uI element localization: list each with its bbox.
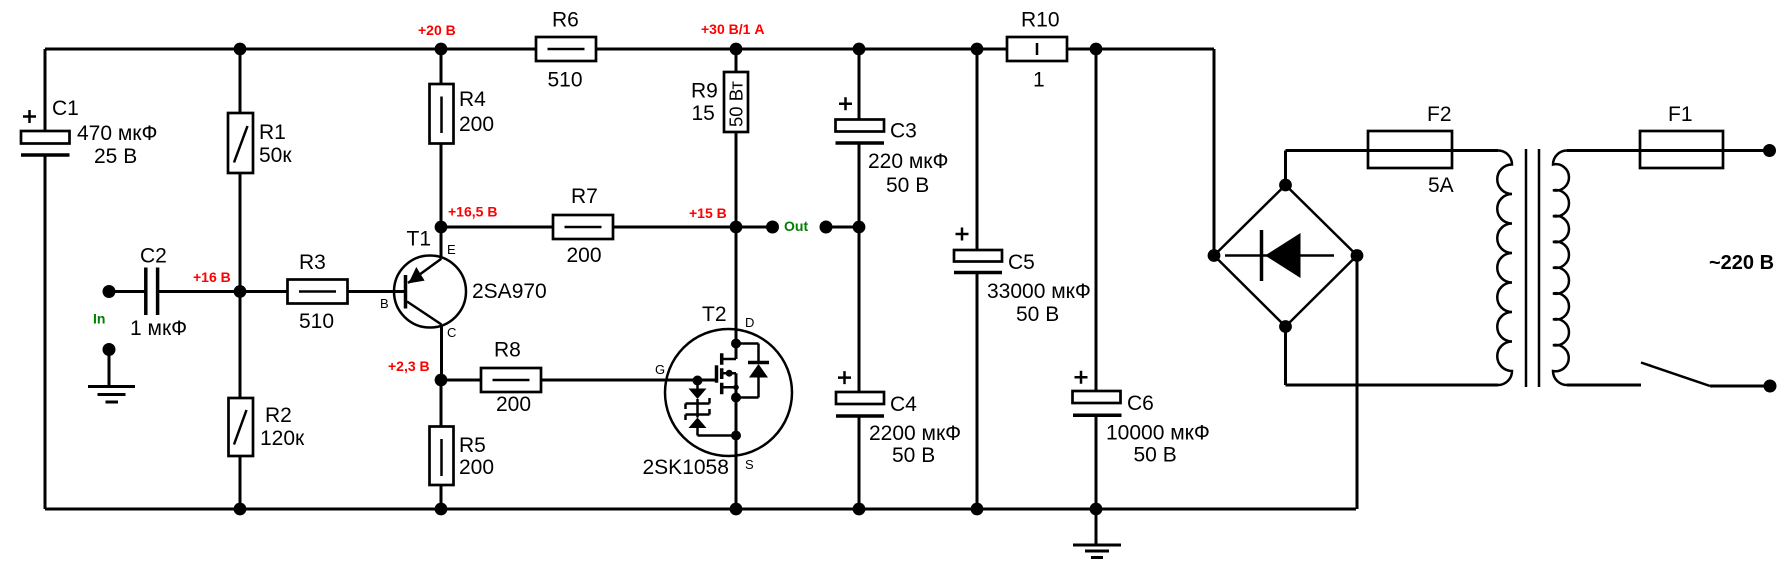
- svg-text:50к: 50к: [259, 144, 292, 167]
- svg-text:R5: R5: [459, 434, 486, 457]
- svg-text:T1: T1: [407, 228, 432, 251]
- svg-text:C1: C1: [52, 97, 79, 120]
- svg-text:F1: F1: [1668, 103, 1693, 126]
- svg-text:+30 В/1 А: +30 В/1 А: [701, 21, 764, 37]
- svg-text:200: 200: [459, 113, 494, 136]
- svg-text:C5: C5: [1008, 251, 1035, 274]
- svg-text:R7: R7: [571, 185, 598, 208]
- svg-text:~220 В: ~220 В: [1709, 252, 1774, 274]
- svg-text:50 В: 50 В: [1134, 444, 1177, 467]
- svg-text:R2: R2: [265, 404, 292, 427]
- svg-text:D: D: [745, 315, 754, 330]
- svg-text:220 мкФ: 220 мкФ: [868, 150, 948, 173]
- svg-text:+16,5 В: +16,5 В: [448, 204, 497, 220]
- svg-text:C2: C2: [140, 245, 167, 268]
- svg-text:2SA970: 2SA970: [472, 280, 547, 303]
- svg-text:S: S: [745, 457, 754, 472]
- svg-text:510: 510: [299, 310, 334, 333]
- svg-text:510: 510: [548, 69, 583, 92]
- svg-text:200: 200: [567, 244, 602, 267]
- svg-text:50 В: 50 В: [892, 444, 935, 467]
- svg-text:50 В: 50 В: [1016, 303, 1059, 326]
- svg-text:R3: R3: [299, 251, 326, 274]
- svg-text:10000 мкФ: 10000 мкФ: [1106, 422, 1210, 445]
- svg-text:R4: R4: [459, 88, 486, 111]
- svg-text:F2: F2: [1427, 103, 1452, 126]
- svg-text:R6: R6: [552, 9, 579, 32]
- svg-text:+20 В: +20 В: [418, 22, 456, 38]
- svg-text:C4: C4: [890, 393, 917, 416]
- svg-text:+16 В: +16 В: [193, 269, 231, 285]
- svg-text:E: E: [447, 242, 456, 257]
- svg-text:R10: R10: [1021, 9, 1060, 32]
- svg-text:470 мкФ: 470 мкФ: [77, 122, 157, 145]
- svg-text:50 Вт: 50 Вт: [726, 81, 747, 127]
- svg-text:In: In: [93, 311, 105, 327]
- svg-text:33000 мкФ: 33000 мкФ: [987, 280, 1091, 303]
- svg-text:25 В: 25 В: [94, 145, 137, 168]
- svg-text:T2: T2: [702, 303, 727, 326]
- svg-text:+2,3 В: +2,3 В: [388, 358, 430, 374]
- svg-text:5A: 5A: [1428, 174, 1454, 197]
- svg-text:R8: R8: [494, 339, 521, 362]
- svg-text:B: B: [380, 296, 389, 311]
- svg-text:Out: Out: [784, 218, 808, 234]
- svg-text:2SK1058: 2SK1058: [643, 456, 729, 479]
- svg-text:C6: C6: [1127, 392, 1154, 415]
- svg-text:15: 15: [692, 102, 715, 125]
- svg-text:50 В: 50 В: [886, 174, 929, 197]
- svg-text:R1: R1: [259, 121, 286, 144]
- svg-text:200: 200: [496, 393, 531, 416]
- svg-text:C: C: [447, 325, 456, 340]
- svg-text:C3: C3: [890, 120, 917, 143]
- svg-text:1 мкФ: 1 мкФ: [130, 317, 187, 340]
- svg-text:200: 200: [459, 456, 494, 479]
- svg-text:120к: 120к: [260, 427, 305, 450]
- svg-text:R9: R9: [691, 80, 718, 103]
- svg-text:G: G: [655, 362, 665, 377]
- svg-text:+15 В: +15 В: [689, 205, 727, 221]
- svg-text:1: 1: [1033, 69, 1045, 92]
- svg-text:2200 мкФ: 2200 мкФ: [869, 422, 961, 445]
